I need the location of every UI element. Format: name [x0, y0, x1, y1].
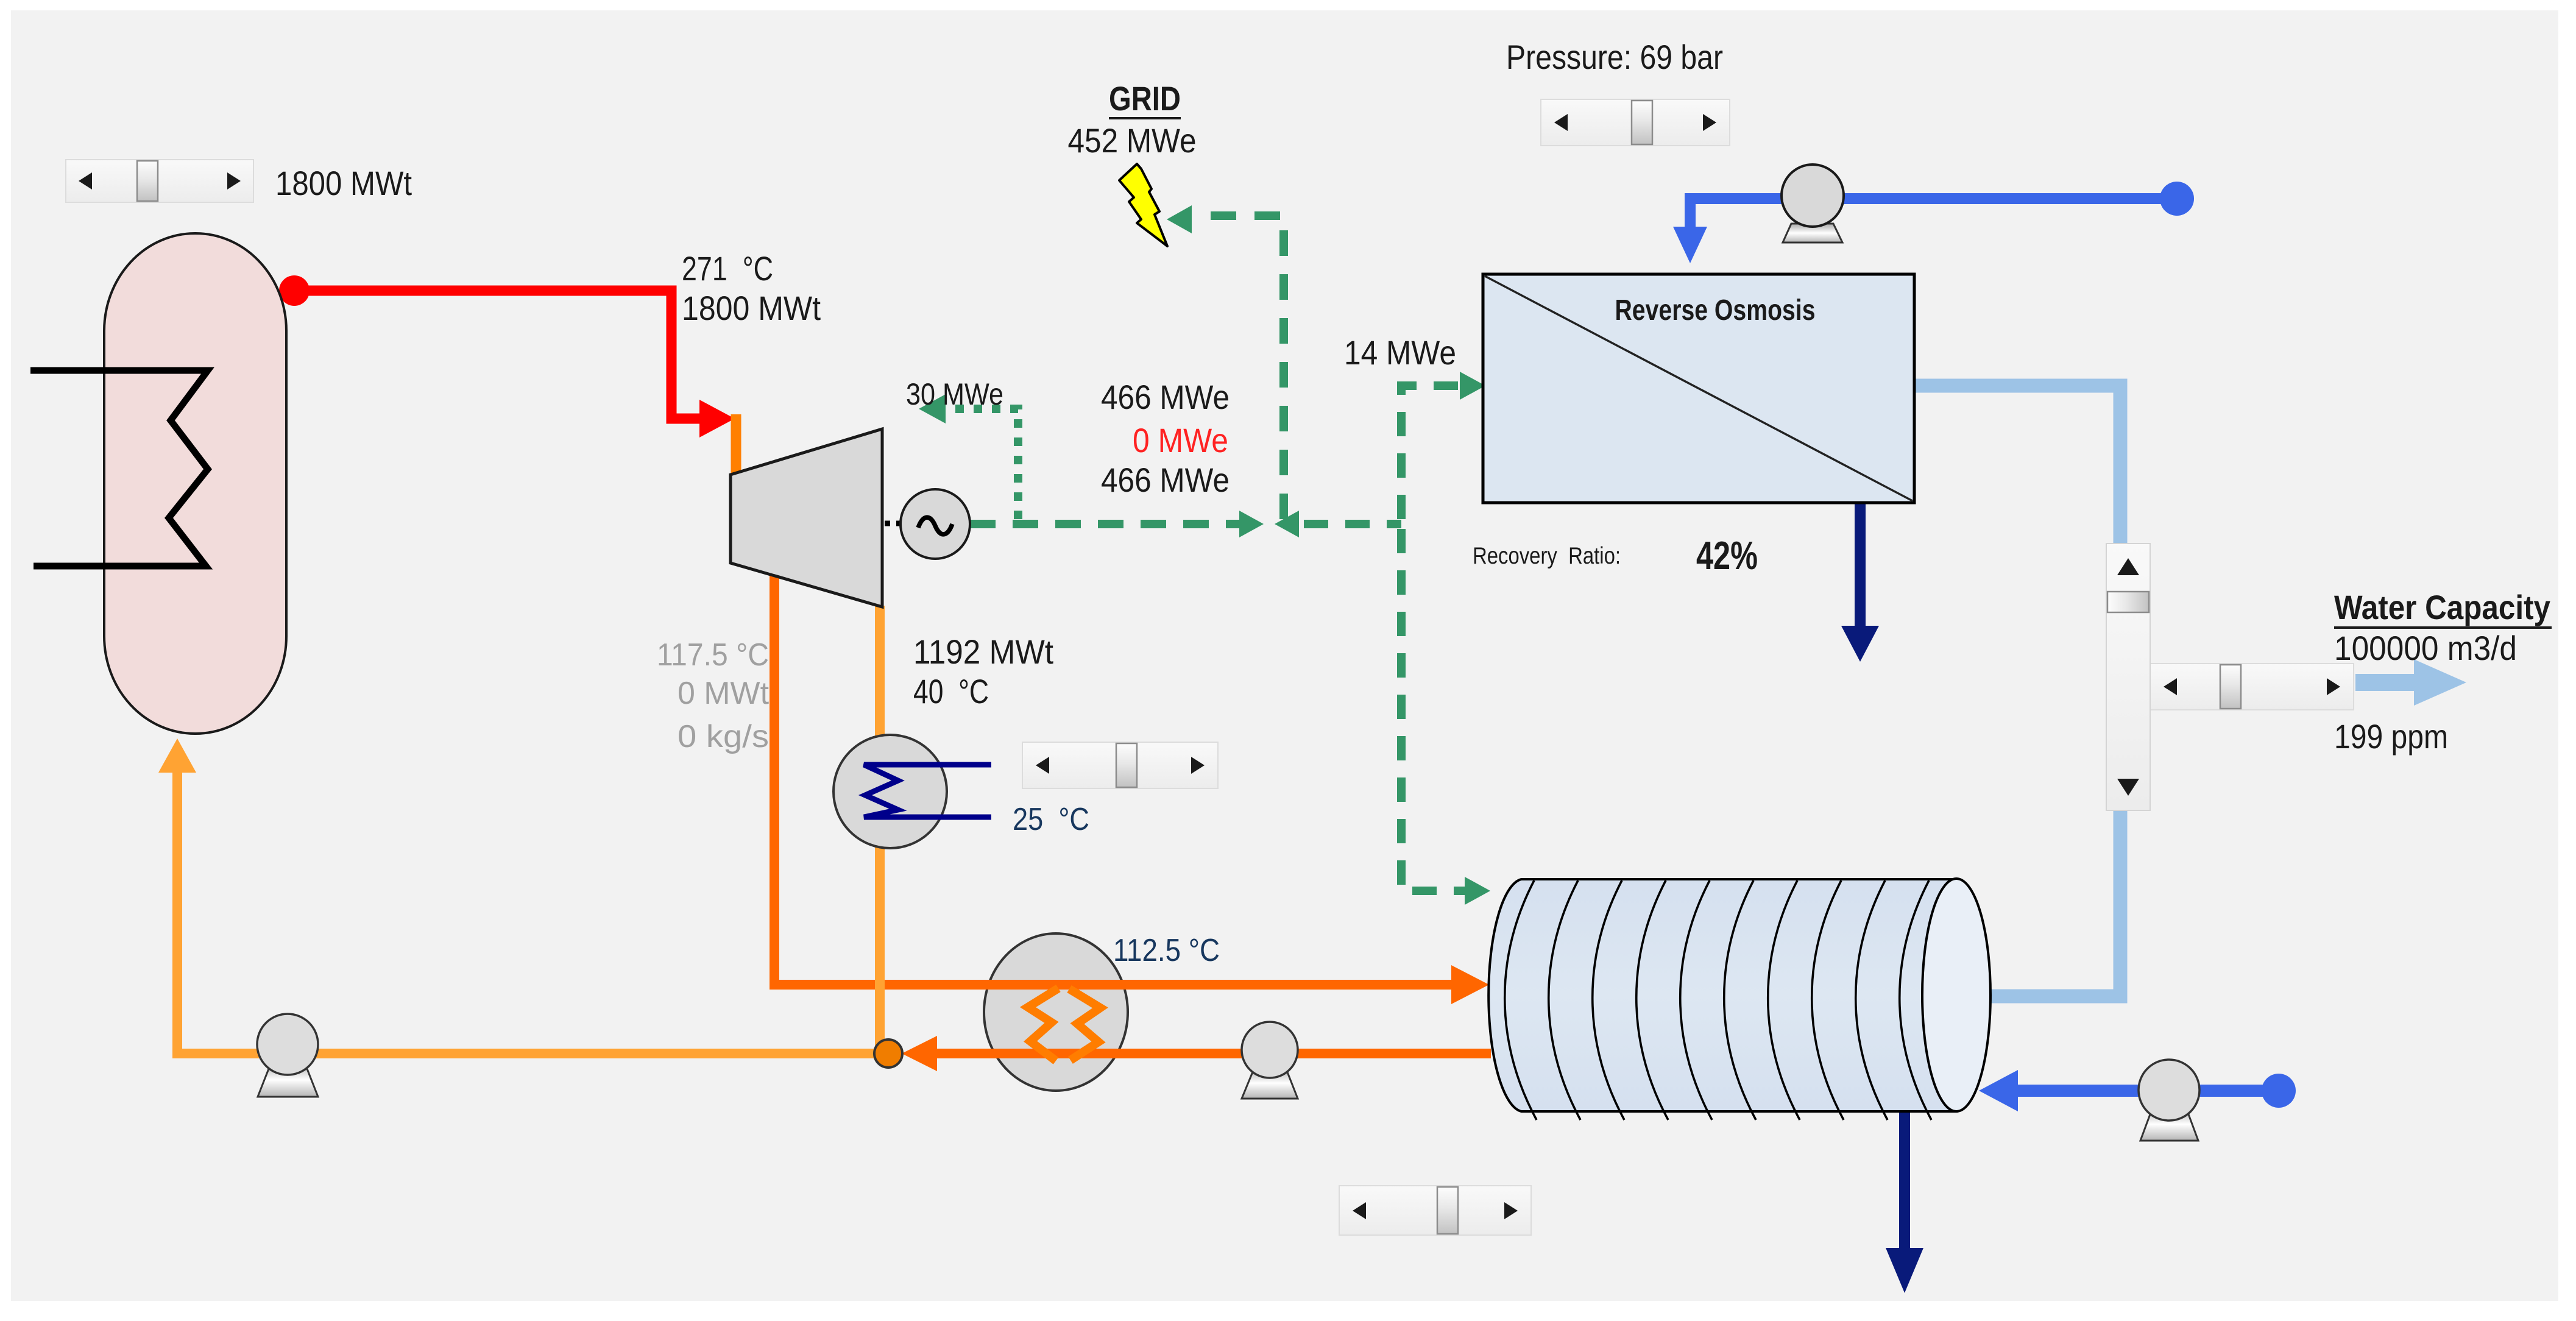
node: arrowhead extraction into MED — [1451, 965, 1489, 1004]
svg-text:Reverse Osmosis: Reverse Osmosis — [1615, 294, 1816, 327]
svg-text:0 kg/s: 0 kg/s — [678, 719, 769, 754]
preheater HX2 body — [984, 933, 1128, 1091]
wire: 30 MWe house load (green dotted) — [946, 409, 1018, 519]
node: red arrowhead into turbine leg — [699, 400, 735, 437]
svg-text:42%: 42% — [1696, 533, 1758, 578]
slider S5 (water capacity) — [2150, 664, 2354, 710]
wire: generator to junction (green dashed) — [970, 520, 1240, 528]
Reverse Osmosis unit — [1483, 274, 1914, 503]
node: navy arrowhead MED brine — [1886, 1248, 1923, 1293]
wire: navy brine from MED — [1899, 1111, 1910, 1254]
wire: orange turbine inlet — [731, 414, 741, 484]
wire: branch up to Reverse Osmosis (green dashed) — [1401, 386, 1460, 519]
shaft — [885, 521, 903, 526]
wire: light orange condensate from turbine through condenser — [875, 606, 885, 1054]
wire: branch down to MED unit (green dashed) — [1401, 529, 1465, 891]
svg-text:Recovery Ratio:: Recovery Ratio: — [1473, 543, 1621, 569]
condenser HX1 — [833, 735, 991, 848]
svg-text:466 MWe: 466 MWe — [1101, 461, 1230, 499]
svg-text:100000 m3/d: 100000 m3/d — [2334, 629, 2517, 667]
svg-text:14 MWe: 14 MWe — [1344, 333, 1456, 372]
svg-text:40 °C: 40 °C — [913, 672, 989, 710]
generator G1 — [901, 489, 970, 559]
svg-text:112.5 °C: 112.5 °C — [1113, 933, 1220, 968]
wire: orange extraction to heat exchanger and MED — [774, 573, 1451, 985]
svg-text:117.5 °C: 117.5 °C — [657, 637, 769, 673]
turbine T1 — [731, 429, 882, 607]
svg-text:466 MWe: 466 MWe — [1101, 378, 1230, 416]
pump P1 — [257, 1014, 318, 1097]
svg-text:199 ppm: 199 ppm — [2334, 717, 2448, 756]
node: arrowhead into RO top — [1673, 227, 1707, 263]
GRID lightning bolt — [1119, 164, 1167, 246]
node: red origin dot — [279, 275, 310, 306]
svg-text:1800 MWt: 1800 MWt — [275, 164, 412, 202]
MED ribs — [1505, 880, 1931, 1120]
pump P2 — [1242, 1022, 1298, 1099]
slider S1 (reactor power) — [66, 160, 253, 202]
node: arrowhead into condensate junction — [902, 1036, 937, 1071]
wire: blue seawater feed to MED — [2017, 1085, 2279, 1097]
svg-text:25 °C: 25 °C — [1013, 802, 1089, 837]
svg-text:0 MWt: 0 MWt — [678, 676, 770, 711]
svg-text:1800 MWt: 1800 MWt — [682, 289, 821, 327]
svg-text:271 °C: 271 °C — [682, 249, 773, 288]
svg-text:0 MWe: 0 MWe — [1133, 421, 1228, 459]
scrollbar V1 (vertical, salinity) — [2106, 544, 2150, 810]
svg-text:30 MWe: 30 MWe — [906, 377, 1003, 411]
svg-text:GRID: GRID — [1109, 79, 1181, 118]
node: blue feed source dot 2 — [2262, 1074, 2296, 1108]
wire: light blue product arrow shaft — [2355, 674, 2415, 691]
MED end cap — [1922, 879, 1990, 1111]
wire: GRID riser (green dashed) — [1193, 216, 1284, 519]
preheater HX2 coil left — [1028, 988, 1058, 1061]
wire: light orange condensate return to reactor — [177, 769, 888, 1054]
wire: orange return from MED to junction — [914, 1049, 1491, 1058]
node: arrowhead into reactor bottom — [158, 738, 196, 773]
node: blue feed source dot — [2160, 182, 2194, 216]
node: arrowhead into MED right — [1979, 1070, 2018, 1111]
slider S4 (MED control) — [1339, 1186, 1531, 1235]
wire: light blue permeate from RO to product header — [1914, 386, 2120, 996]
reactor vessel — [104, 233, 286, 734]
wire: red primary hot leg — [294, 291, 699, 419]
node: condensate junction dot — [874, 1039, 902, 1068]
node: navy arrowhead RO brine — [1841, 626, 1879, 662]
node: arrowhead 30 MWe — [919, 394, 946, 423]
node: arrowhead into MED — [1465, 877, 1490, 905]
node: arrowhead into RO — [1460, 372, 1485, 400]
preheater HX2 coil right — [1069, 989, 1100, 1060]
heater coil — [30, 370, 208, 566]
slider S2 (RO pressure) — [1541, 99, 1730, 146]
pump P3 — [1782, 165, 1844, 243]
node: junction arrowhead left — [1275, 511, 1299, 537]
svg-text:452 MWe: 452 MWe — [1068, 121, 1197, 160]
slider S3 (cooling temperature) — [1022, 742, 1218, 788]
wire: navy brine from RO — [1855, 503, 1866, 631]
wire: blue seawater feed to RO — [1690, 199, 2177, 229]
node: junction arrowhead right — [1239, 511, 1264, 537]
pump P4 — [2139, 1060, 2199, 1141]
MED cylinder body — [1488, 879, 1956, 1111]
node: arrowhead into grid bolt — [1167, 205, 1192, 233]
node: light blue product arrowhead — [2414, 659, 2466, 706]
svg-text:Pressure: 69 bar: Pressure: 69 bar — [1506, 38, 1723, 76]
svg-text:1192 MWt: 1192 MWt — [913, 632, 1053, 671]
wire: junction to RO/MED branch (green dashed) — [1304, 520, 1401, 528]
svg-text:Water Capacity: Water Capacity — [2334, 588, 2550, 626]
